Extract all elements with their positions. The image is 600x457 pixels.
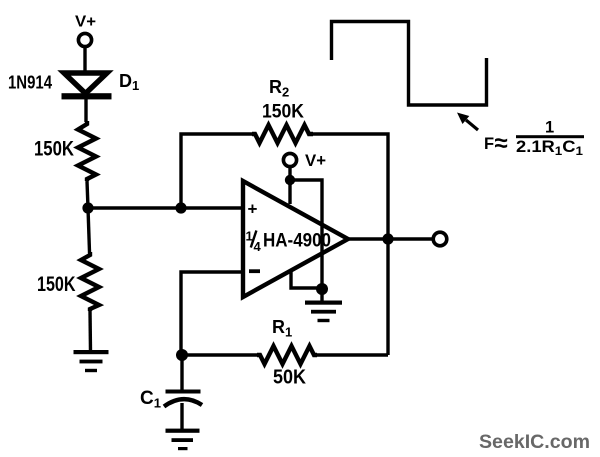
svg-text:150K: 150K — [34, 137, 74, 161]
V+ terminal circle (top left) — [78, 33, 91, 46]
wire node B to R1 — [182, 353, 257, 356]
ground node dot (op-amp V-) — [316, 283, 328, 295]
wire feedback left vertical (R2 loop) — [181, 134, 252, 208]
svg-text:50K: 50K — [273, 367, 306, 389]
capacitor C1 — [164, 390, 202, 407]
output terminal circle — [433, 232, 447, 246]
wire op-amp output — [348, 237, 432, 240]
ground (op-amp) — [305, 289, 342, 322]
wire supply node to op-amp top edge — [288, 180, 291, 204]
wire - input to left and down — [181, 272, 243, 355]
wire supply loop right and down — [290, 180, 322, 289]
wire V+ circle to supply node — [288, 167, 291, 180]
svg-text:4: 4 — [254, 239, 262, 254]
wire output vertical down to R1 — [386, 239, 389, 355]
wire node B down to C1 — [180, 355, 183, 390]
resistor R1 50K — [257, 346, 317, 364]
svg-text:150K: 150K — [262, 101, 304, 123]
wire R2 right to output vertical — [313, 134, 388, 240]
arrow to waveform — [457, 113, 478, 131]
wire diode to R (150K top) — [84, 97, 87, 122]
ground (left) — [74, 350, 109, 372]
ground (C1) — [166, 429, 200, 451]
resistor 150K (upper left) — [78, 121, 96, 181]
waveform square wave — [332, 22, 487, 106]
svg-text:1N914: 1N914 — [8, 73, 52, 93]
wire lower 150K to ground — [88, 310, 92, 352]
svg-text:≈: ≈ — [495, 130, 508, 157]
svg-text:V+: V+ — [75, 14, 96, 31]
resistor R2 150K — [252, 125, 313, 143]
wire V+ to diode — [83, 48, 86, 72]
op-amp U1 triangle — [243, 181, 348, 297]
wire op-amp bottom edge stub to ground node — [291, 271, 322, 288]
wire node A to op-amp + input — [88, 206, 243, 209]
output junction dot — [382, 233, 393, 244]
node B junction dot (C1/R1) — [176, 349, 188, 361]
op-amp - input label — [249, 269, 260, 273]
node A junction dot — [82, 202, 93, 213]
wire C1 to ground — [180, 403, 183, 430]
wire node A down to lower 150K — [88, 208, 90, 252]
svg-text:1: 1 — [545, 119, 554, 137]
formula F approx 1/(2.1 R1 C1) — [484, 119, 584, 159]
supply node dot — [285, 175, 295, 185]
wire R to node A — [87, 181, 88, 208]
wire R1 to output vertical — [317, 353, 388, 356]
resistor 150K (lower left) — [81, 252, 99, 311]
svg-text:150K: 150K — [37, 272, 76, 296]
op-amp part label 1/4HA-4900 — [246, 229, 332, 255]
svg-text:V+: V+ — [305, 151, 326, 170]
junction dot (feedback tap on + input wire) — [175, 202, 186, 213]
diode D1 — [62, 73, 112, 99]
svg-text:+: + — [248, 200, 258, 219]
svg-text:F: F — [484, 135, 494, 153]
svg-text:SeekIC.com: SeekIC.com — [479, 431, 590, 453]
svg-text:2.1R1C1: 2.1R1C1 — [516, 138, 583, 158]
V+ supply terminal circle (op-amp) — [283, 153, 296, 166]
